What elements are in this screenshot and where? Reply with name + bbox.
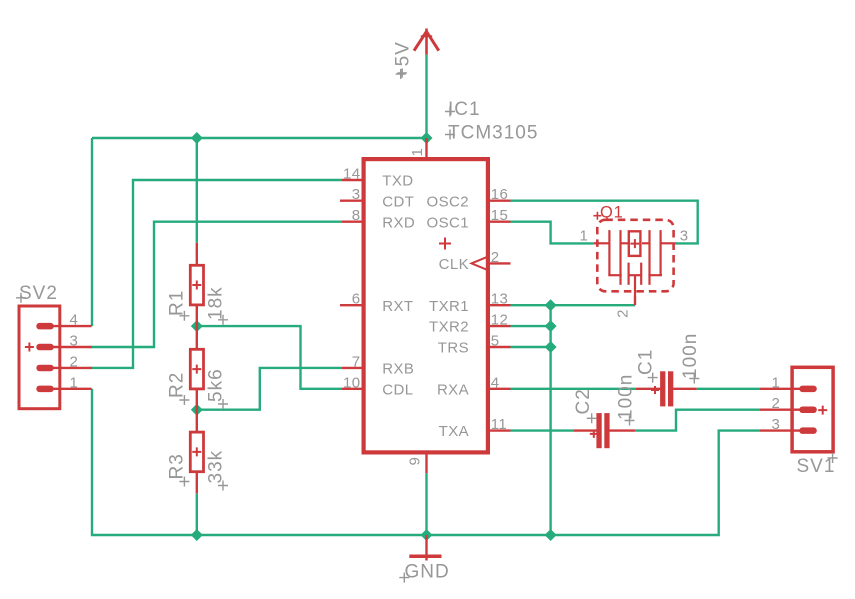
svg-text:2: 2 bbox=[70, 353, 79, 370]
svg-text:2: 2 bbox=[615, 309, 632, 318]
svg-text:15: 15 bbox=[491, 207, 509, 224]
svg-text:1: 1 bbox=[771, 374, 780, 391]
svg-text:TCM3105: TCM3105 bbox=[448, 123, 538, 144]
svg-text:16: 16 bbox=[491, 186, 509, 203]
svg-text:TRS: TRS bbox=[438, 340, 469, 357]
svg-text:TXA: TXA bbox=[439, 423, 469, 440]
svg-text:3: 3 bbox=[352, 186, 361, 203]
svg-text:2: 2 bbox=[491, 249, 500, 266]
svg-text:33k: 33k bbox=[206, 450, 227, 484]
svg-text:3: 3 bbox=[680, 227, 689, 244]
svg-text:RXT: RXT bbox=[382, 298, 413, 315]
svg-text:1: 1 bbox=[70, 374, 79, 391]
svg-text:13: 13 bbox=[491, 291, 509, 308]
svg-text:OSC2: OSC2 bbox=[427, 193, 469, 210]
svg-text:R2: R2 bbox=[167, 372, 188, 398]
svg-text:TXD: TXD bbox=[382, 173, 413, 190]
svg-text:RXA: RXA bbox=[437, 381, 469, 398]
svg-text:Q1: Q1 bbox=[600, 203, 624, 221]
svg-text:5: 5 bbox=[491, 333, 500, 350]
svg-text:6: 6 bbox=[352, 291, 361, 308]
svg-text:+5V: +5V bbox=[392, 41, 413, 78]
svg-text:TXR1: TXR1 bbox=[429, 298, 469, 315]
svg-text:3: 3 bbox=[771, 416, 780, 433]
svg-text:C1: C1 bbox=[636, 349, 657, 375]
svg-text:TXR2: TXR2 bbox=[429, 319, 469, 336]
svg-text:GND: GND bbox=[405, 561, 450, 582]
svg-text:SV1: SV1 bbox=[797, 456, 836, 477]
svg-text:OSC1: OSC1 bbox=[427, 214, 469, 231]
svg-text:C2: C2 bbox=[573, 388, 594, 414]
svg-text:1: 1 bbox=[579, 227, 588, 244]
svg-text:4: 4 bbox=[491, 374, 500, 391]
svg-text:CDL: CDL bbox=[382, 381, 413, 398]
svg-text:18k: 18k bbox=[206, 286, 227, 320]
svg-text:SV2: SV2 bbox=[19, 283, 58, 304]
svg-text:8: 8 bbox=[352, 207, 361, 224]
svg-text:CDT: CDT bbox=[382, 193, 414, 210]
svg-text:RXD: RXD bbox=[382, 214, 415, 231]
svg-text:IC1: IC1 bbox=[448, 99, 481, 120]
svg-text:5k6: 5k6 bbox=[206, 368, 227, 402]
svg-text:10: 10 bbox=[343, 374, 361, 391]
svg-text:R3: R3 bbox=[167, 453, 188, 479]
svg-text:4: 4 bbox=[70, 312, 79, 329]
svg-text:1: 1 bbox=[409, 148, 426, 157]
svg-text:100n: 100n bbox=[680, 333, 701, 379]
svg-text:RXB: RXB bbox=[382, 361, 414, 378]
svg-text:R1: R1 bbox=[167, 290, 188, 316]
svg-text:14: 14 bbox=[343, 166, 361, 183]
svg-text:7: 7 bbox=[352, 353, 361, 370]
svg-text:100n: 100n bbox=[615, 374, 636, 420]
svg-text:9: 9 bbox=[406, 457, 423, 466]
svg-text:2: 2 bbox=[771, 395, 780, 412]
svg-text:11: 11 bbox=[491, 416, 507, 433]
svg-text:CLK: CLK bbox=[439, 256, 469, 273]
svg-text:12: 12 bbox=[491, 312, 509, 329]
svg-text:3: 3 bbox=[70, 333, 79, 350]
